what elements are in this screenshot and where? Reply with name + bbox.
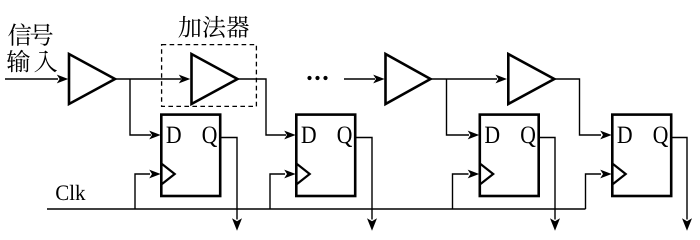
- wire: branch from A1 output down to FF1 D input: [130, 79, 151, 135]
- D flip-flop FF2 body: [296, 115, 355, 196]
- arrowhead: into FF1 D input: [149, 131, 161, 140]
- arrowhead: into A3: [373, 75, 385, 84]
- arrowhead: FF3 clock input: [468, 170, 480, 179]
- op-amp A2 (adder): [192, 54, 238, 104]
- arrowhead: FF4 clock input: [600, 170, 612, 179]
- wire: A4 output to FF4 D input: [553, 79, 601, 135]
- label: signal input 信号 (line 1): [8, 23, 52, 46]
- FF4 pin label D: [618, 127, 632, 143]
- FF4 clock wire (riser at end of Clk line): [586, 174, 602, 209]
- label: 加法器 (adder): [179, 16, 249, 38]
- FF3 Q output wire: [539, 138, 555, 220]
- op-amp A3: [386, 54, 431, 104]
- arrowhead: into adder A2: [179, 75, 191, 84]
- FF1 pin label D: [167, 127, 181, 143]
- wire: A2 output to FF2 D input: [237, 79, 287, 135]
- arrowhead: into FF2 D input: [284, 131, 296, 140]
- FF1 Q output wire: [221, 138, 238, 220]
- wire: into amplifier A3: [344, 78, 375, 80]
- wire: branch from A3 output down to FF3 D input: [447, 79, 470, 135]
- op-amp A4: [508, 54, 554, 104]
- wire: A1 output to adder A2: [114, 78, 181, 80]
- arrowhead: into A4: [496, 75, 508, 84]
- wire: signal input line: [5, 78, 58, 80]
- wire: A3 output to A4: [430, 78, 498, 80]
- wire: Clk distribution line: [47, 208, 586, 210]
- FF2 pin label Q: [338, 126, 352, 147]
- FF4 Q output wire: [672, 138, 688, 220]
- dashed box: adder highlight: [162, 45, 257, 107]
- arrowhead: signal into amplifier A1: [57, 75, 69, 84]
- FF3 pin label D: [485, 127, 499, 143]
- D flip-flop FF1 body: [161, 115, 220, 196]
- FF1 clock wire from Clk line: [135, 174, 150, 209]
- arrowhead: into FF3 D input: [468, 131, 480, 140]
- op-amp A1 (input buffer): [69, 54, 115, 104]
- FF3 pin label Q: [521, 126, 535, 147]
- label: Clk: [56, 185, 85, 200]
- arrowhead: FF1 clock input: [149, 170, 161, 179]
- arrowhead: FF1 output (down): [232, 218, 242, 231]
- label: signal input 输入 (line 2): [7, 50, 57, 73]
- FF1 pin label Q: [203, 126, 217, 147]
- arrowhead: FF3 output (down): [550, 218, 560, 231]
- FF3 clock wire from Clk line: [453, 174, 469, 209]
- arrowhead: into FF4 D input: [600, 131, 612, 140]
- FF2 clock wire from Clk line: [270, 174, 285, 209]
- D flip-flop FF4 body: [612, 115, 671, 196]
- arrowhead: FF2 clock input: [284, 170, 296, 179]
- FF2 pin label D: [302, 127, 316, 143]
- D flip-flop FF3 body: [480, 115, 539, 196]
- arrowhead: FF2 output (down): [367, 218, 377, 231]
- arrowhead: FF4 output (down): [682, 218, 692, 231]
- FF2 Q output wire: [356, 138, 373, 220]
- FF4 pin label Q: [654, 126, 668, 147]
- ellipsis: omitted stages: [307, 76, 327, 80]
